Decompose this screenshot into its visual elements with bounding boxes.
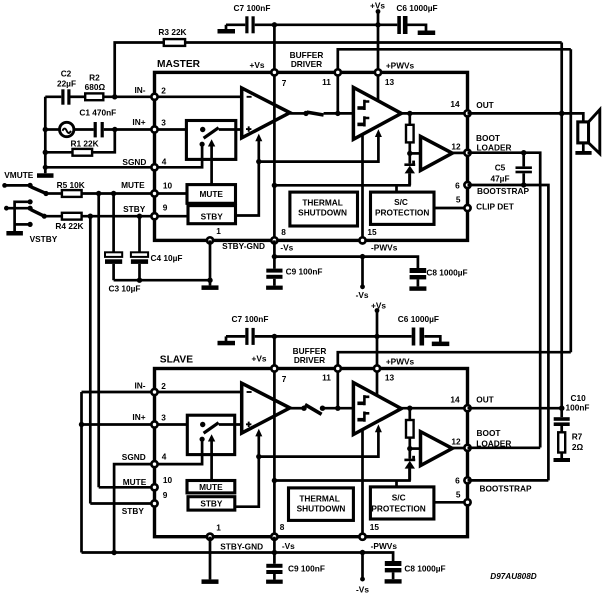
- svg-text:C5: C5: [495, 163, 506, 173]
- resistor R5 10K (master mute): [46, 192, 62, 195]
- svg-text:IN-: IN-: [134, 380, 145, 390]
- wire stby control to input amp (master): [257, 141, 260, 162]
- svg-text:STBY: STBY: [122, 506, 145, 516]
- wire slave IN- internal: [155, 391, 242, 394]
- wire mute control arrow (master): [210, 146, 213, 185]
- pin 3 (master): [151, 126, 157, 132]
- svg-text:4: 4: [162, 452, 167, 462]
- svg-text:DRIVER: DRIVER: [294, 355, 325, 365]
- svg-text:+Vs: +Vs: [371, 301, 386, 311]
- op-amp input stage (master): [242, 88, 290, 138]
- wire master pin 11 to top link: [338, 49, 571, 72]
- wire BOOT LOADER row (master pin 12): [468, 153, 541, 448]
- wire slave IN- row and tie column: [82, 392, 155, 553]
- svg-text:5: 5: [456, 489, 461, 499]
- diode internal (slave boot): [408, 449, 411, 459]
- svg-text:SHUTDOWN: SHUTDOWN: [297, 503, 346, 513]
- wire -Vs rail (master bottom): [274, 257, 418, 268]
- svg-text:STBY: STBY: [200, 499, 223, 509]
- pin 9 (master): [151, 213, 157, 219]
- svg-text:THERMAL: THERMAL: [299, 494, 340, 504]
- svg-text:2Ω: 2Ω: [572, 442, 584, 452]
- transistor Q upper (master power stage): [364, 100, 369, 110]
- resistor internal (master boot): [408, 113, 411, 124]
- pin 1 (master): [207, 237, 213, 243]
- capacitor C8 1000uF (slave): [385, 561, 402, 566]
- svg-text:C7 100nF: C7 100nF: [234, 3, 271, 13]
- svg-text:47µF: 47µF: [490, 174, 509, 184]
- svg-text:IN-: IN-: [134, 85, 145, 95]
- capacitor C6 (slave): [412, 328, 416, 346]
- resistor R7 2ohm (zobel): [558, 432, 565, 452]
- node IN+ junction (master): [112, 127, 117, 132]
- svg-text:13: 13: [385, 77, 395, 87]
- wire OUT external (slave): [468, 407, 562, 410]
- pin 12 (master): [464, 150, 470, 156]
- pin 4 (slave): [151, 461, 157, 467]
- svg-text:PROTECTION: PROTECTION: [371, 503, 425, 513]
- op-amp power stage (master): [353, 87, 401, 139]
- wire C3/C4 ground bus: [114, 279, 210, 282]
- wire mute contact to SGND (master): [200, 142, 205, 147]
- switch box (slave input mute switch): [187, 415, 234, 454]
- transistor Q lower (master power stage): [364, 116, 369, 126]
- wire slave MUTE row: [99, 486, 155, 489]
- capacitor C4 10uF: [138, 216, 141, 252]
- wire OUT external (master): [468, 113, 584, 121]
- node +Vs terminal (master): [376, 9, 381, 14]
- svg-text:13: 13: [385, 373, 395, 383]
- wire buffer-driver bus (master pin11 to slave pin11): [569, 49, 572, 352]
- capacitor C10 100nF (zobel): [560, 408, 563, 417]
- capacitor C3 10uF: [112, 194, 115, 253]
- wire SGND row (master): [45, 166, 154, 169]
- wire +Vs column to pin 13 (master): [377, 12, 380, 73]
- pin 8 (slave): [271, 534, 277, 540]
- wire +Vs top rail (slave): [226, 335, 245, 338]
- block STBY (master): [188, 206, 236, 224]
- wire rail to pin 7 (slave): [273, 336, 276, 368]
- wire master IN+ internal: [155, 128, 203, 131]
- pin 3 (slave): [151, 421, 157, 427]
- svg-text:-Vs: -Vs: [356, 290, 369, 300]
- wire internal +Vs branch to diode and S/C (master): [274, 173, 409, 185]
- svg-text:SLAVE: SLAVE: [160, 354, 193, 365]
- svg-text:8: 8: [281, 227, 286, 237]
- wire boot buffer input (slave): [410, 447, 421, 450]
- op-amp boot loader buffer (slave): [421, 432, 453, 466]
- svg-text:LOADER: LOADER: [476, 142, 511, 152]
- svg-text:D97AU808D: D97AU808D: [490, 572, 537, 581]
- wire pin 1 to ground (slave): [209, 537, 212, 580]
- svg-text:IN+: IN+: [132, 117, 145, 127]
- svg-text:15: 15: [370, 522, 380, 532]
- transistor Q lower (slave power stage): [364, 412, 369, 422]
- svg-text:R4 22K: R4 22K: [55, 221, 83, 231]
- capacitor C5 47uF: [522, 153, 525, 167]
- ground (left of C7, master top): [225, 25, 228, 30]
- switch buffer-driver (master, closed): [290, 112, 305, 115]
- wire stby control to input amp (slave): [257, 436, 260, 457]
- op-amp power stage (slave): [353, 383, 401, 435]
- svg-text:6: 6: [455, 180, 460, 190]
- block STBY (slave): [188, 497, 235, 510]
- node IN- feedback junction (master): [112, 94, 117, 99]
- svg-text:C9 100nF: C9 100nF: [286, 267, 323, 277]
- svg-text:-PWVs: -PWVs: [371, 242, 398, 252]
- svg-text:8: 8: [280, 522, 285, 532]
- svg-text:2: 2: [161, 381, 166, 391]
- diode internal (master boot): [408, 153, 411, 163]
- svg-text:C1 470nF: C1 470nF: [79, 108, 116, 118]
- svg-text:12: 12: [451, 436, 461, 446]
- svg-text:14: 14: [450, 394, 460, 404]
- wire stby bus (master to slave): [89, 216, 92, 503]
- capacitor C9 100nF (master): [266, 269, 282, 273]
- svg-text:MUTE: MUTE: [199, 482, 223, 492]
- wire stby control column (master): [236, 162, 259, 216]
- capacitor C7 (master): [245, 16, 248, 33]
- wire stby control column (slave): [235, 457, 259, 507]
- ground (VMUTE/VSTBY switches): [6, 231, 23, 236]
- wire mute bus (master to slave): [97, 194, 100, 488]
- svg-text:-Vs: -Vs: [280, 243, 293, 253]
- wire internal +Vs branch to diode and S/C (slave): [274, 469, 409, 481]
- svg-text:6: 6: [455, 475, 460, 485]
- pin 13 (master): [375, 69, 381, 75]
- node stby-bus junction (master stby row): [88, 214, 93, 219]
- resistor internal (slave boot): [408, 408, 411, 420]
- pin 10 (master): [151, 190, 157, 196]
- capacitor C7 (slave): [245, 328, 248, 345]
- wire OUT internal (slave): [401, 407, 467, 410]
- switch buffer-driver (slave, open): [290, 407, 303, 410]
- svg-text:9: 9: [163, 490, 168, 500]
- block THERMAL SHUTDOWN (slave): [289, 488, 354, 521]
- svg-text:R7: R7: [572, 432, 583, 442]
- wire S/C to pin 5 (master): [434, 207, 468, 210]
- svg-text:4: 4: [162, 157, 167, 167]
- wire stby control to power amp (master): [259, 137, 379, 162]
- svg-text:CLIP DET: CLIP DET: [476, 202, 514, 212]
- wire OUT bus (master OUT down to slave OUT): [560, 43, 563, 409]
- svg-text:C4 10µF: C4 10µF: [151, 253, 183, 263]
- node C4 junction (master stby row): [137, 214, 142, 219]
- svg-text:OUT: OUT: [476, 395, 494, 405]
- svg-text:MASTER: MASTER: [157, 59, 201, 70]
- wire OUT internal (master): [401, 112, 467, 115]
- svg-text:100nF: 100nF: [566, 402, 590, 412]
- pin 2 (master): [151, 94, 157, 100]
- svg-text:SGND: SGND: [122, 157, 146, 167]
- wire pin7/pin8 internal rail (master): [273, 72, 276, 240]
- pin 1 (slave): [207, 534, 213, 540]
- svg-text:R1 22K: R1 22K: [71, 139, 99, 149]
- switch VSTBY: [4, 206, 9, 211]
- resistor R3 22K (feedback, master): [115, 43, 164, 97]
- svg-text:S/C: S/C: [394, 197, 408, 207]
- wire slave pin 9 row: [90, 502, 154, 505]
- ground (right of C6, slave): [432, 342, 450, 347]
- svg-text:SGND: SGND: [122, 452, 146, 462]
- svg-text:7: 7: [282, 374, 287, 384]
- svg-text:SHUTDOWN: SHUTDOWN: [298, 208, 347, 218]
- pin 12 (slave): [464, 445, 470, 451]
- svg-text:5: 5: [456, 194, 461, 204]
- pin 14 (slave): [464, 405, 470, 411]
- wire +Vs top rail (master): [226, 23, 245, 26]
- svg-text:R3 22K: R3 22K: [158, 27, 186, 37]
- capacitor C2 22uF (master input): [45, 95, 61, 98]
- wire slave IN+ row: [82, 423, 155, 426]
- wire slave SGND row: [114, 464, 154, 552]
- svg-text:+Vs: +Vs: [370, 1, 385, 11]
- block MUTE (slave): [187, 481, 235, 493]
- node +Vs terminal (slave): [375, 308, 380, 313]
- svg-text:BOOTSTRAP: BOOTSTRAP: [479, 484, 532, 494]
- wire S/C to pin 5 (slave): [434, 501, 468, 504]
- node mute-bus junction (master mute row): [96, 191, 101, 196]
- svg-text:2: 2: [161, 86, 166, 96]
- svg-text:STBY-GND: STBY-GND: [220, 541, 263, 551]
- pin 11 (slave): [335, 365, 341, 371]
- node C3 junction (master mute row): [111, 191, 116, 196]
- ground (left of C7, slave): [225, 336, 228, 341]
- wire pin 15 column (master): [361, 135, 364, 241]
- IC U2 SLAVE box: [155, 369, 468, 537]
- wire mute control arrow (slave): [210, 441, 213, 481]
- svg-text:14: 14: [450, 99, 460, 109]
- pin 7 (slave): [271, 365, 277, 371]
- svg-text:IN+: IN+: [132, 412, 145, 422]
- pin 5 (master): [464, 205, 470, 211]
- capacitor C8 1000uF (master): [410, 268, 427, 273]
- svg-text:+PWVs: +PWVs: [386, 60, 415, 70]
- wire stby control to power amp (slave): [259, 432, 379, 457]
- svg-text:+Vs: +Vs: [250, 60, 265, 70]
- svg-text:VMUTE: VMUTE: [4, 170, 34, 180]
- node -Vs terminal (slave): [361, 553, 364, 578]
- switch VMUTE: [2, 183, 7, 188]
- block S/C PROTECTION (master): [371, 192, 435, 224]
- wire pin 11 column (master): [336, 72, 339, 113]
- ground (right of C6, master top): [418, 31, 436, 36]
- wire BOOTSTRAP row (master pin 6): [468, 185, 549, 480]
- node -Vs terminal (master): [361, 257, 364, 285]
- wire pin 11 column (slave): [336, 369, 339, 409]
- wire VMUTE/VSTBY ground contacts: [15, 202, 31, 231]
- pin 11 (master): [335, 69, 341, 75]
- pin 7 (master): [271, 69, 277, 75]
- wire pin7/pin8 internal rail (slave): [273, 369, 276, 537]
- wire pin 8 to C9 (master): [273, 240, 276, 268]
- switch arm (master input): [200, 127, 205, 132]
- svg-text:BOOT: BOOT: [476, 133, 500, 143]
- pin 14 (master): [464, 110, 470, 116]
- wire +Vs column to pin 13 (slave): [376, 311, 379, 369]
- block THERMAL SHUTDOWN (master): [290, 192, 358, 226]
- svg-text:9: 9: [163, 203, 168, 213]
- svg-text:VSTBY: VSTBY: [30, 234, 58, 244]
- svg-text:MUTE: MUTE: [199, 189, 223, 199]
- wire pin 13 into power amp (master): [377, 72, 380, 99]
- svg-text:3: 3: [161, 118, 166, 128]
- pin 6 (slave): [464, 477, 470, 483]
- wire pin 15 column (slave): [361, 430, 364, 537]
- wire pin 1 to ground (master): [209, 240, 212, 285]
- svg-text:BOOT: BOOT: [477, 428, 501, 438]
- svg-text:+Vs: +Vs: [252, 353, 267, 363]
- svg-text:STBY-GND: STBY-GND: [222, 241, 265, 251]
- svg-text:10: 10: [163, 475, 173, 485]
- svg-text:22µF: 22µF: [57, 79, 76, 89]
- svg-text:R5 10K: R5 10K: [57, 180, 85, 190]
- wire master IN- internal: [155, 95, 242, 98]
- svg-text:MUTE: MUTE: [121, 180, 145, 190]
- op-amp boot loader buffer (master): [421, 136, 453, 170]
- svg-text:OUT: OUT: [476, 100, 494, 110]
- capacitor C6 (master): [397, 16, 401, 34]
- op-amp input stage (slave): [242, 383, 290, 433]
- svg-text:DRIVER: DRIVER: [291, 59, 322, 69]
- svg-text:BOOTSTRAP: BOOTSTRAP: [477, 186, 530, 196]
- wire mute contact to SGND (slave): [200, 437, 205, 442]
- transistor Q upper (slave power stage): [364, 395, 369, 405]
- svg-text:LOADER: LOADER: [476, 439, 511, 449]
- IC U1 MASTER box: [155, 72, 468, 240]
- wire pin 8 to C9 (slave): [273, 537, 276, 564]
- pin 9 (slave): [151, 500, 157, 506]
- wire +Vs rail to pin 7 (master): [273, 25, 276, 73]
- svg-text:-Vs: -Vs: [282, 541, 295, 551]
- svg-text:C8 1000µF: C8 1000µF: [404, 564, 445, 574]
- svg-text:+PWVs: +PWVs: [386, 357, 415, 367]
- wire pin 13 into power amp (slave): [376, 369, 379, 396]
- pin 13 (slave): [374, 365, 380, 371]
- svg-text:C9 100nF: C9 100nF: [288, 564, 325, 574]
- wire BOOTSTRAP row (slave pin 6): [468, 479, 549, 482]
- pin 5 (slave): [464, 499, 470, 505]
- wire boot buffer input (master): [410, 152, 421, 155]
- wire -Vs rail (slave bottom): [82, 553, 394, 562]
- wire BOOT LOADER row (slave pin 12): [468, 446, 541, 449]
- pin 4 (master): [151, 164, 157, 170]
- svg-text:STBY: STBY: [201, 211, 224, 221]
- resistor R1 22K (master input): [45, 151, 72, 154]
- pin 15 (master): [359, 237, 365, 243]
- svg-text:STBY: STBY: [123, 204, 146, 214]
- svg-text:THERMAL: THERMAL: [302, 197, 343, 207]
- svg-text:C7 100nF: C7 100nF: [232, 314, 269, 324]
- svg-text:R2: R2: [89, 73, 100, 83]
- svg-text:10: 10: [163, 180, 173, 190]
- switch box (master input mute switch): [186, 121, 235, 160]
- pin 15 (slave): [359, 534, 365, 540]
- svg-text:S/C: S/C: [392, 493, 406, 503]
- svg-text:-Vs: -Vs: [356, 584, 369, 594]
- svg-text:11: 11: [322, 77, 331, 87]
- speaker: [578, 122, 589, 143]
- svg-text:7: 7: [282, 78, 287, 88]
- svg-text:C6 1000µF: C6 1000µF: [396, 3, 437, 13]
- svg-text:12: 12: [451, 141, 461, 151]
- wire slave IN+ internal: [155, 423, 203, 426]
- wire slave pin 11 top link: [338, 352, 571, 368]
- svg-text:680Ω: 680Ω: [85, 82, 106, 92]
- svg-text:C3 10µF: C3 10µF: [109, 284, 141, 294]
- switch arm (slave input): [200, 422, 205, 427]
- svg-text:PROTECTION: PROTECTION: [375, 208, 429, 218]
- svg-text:C2: C2: [61, 69, 72, 79]
- svg-text:11: 11: [322, 373, 331, 383]
- resistor R4 22K (master stby): [44, 215, 62, 218]
- wire input ground column (master): [44, 97, 47, 174]
- capacitor C9 100nF (slave): [266, 564, 282, 568]
- block MUTE (master): [187, 185, 236, 204]
- pin 8 (master): [271, 237, 277, 243]
- resistor R2 680ohm (master input): [71, 95, 86, 98]
- svg-text:15: 15: [367, 227, 377, 237]
- svg-text:1: 1: [216, 522, 221, 532]
- ground (input network, master): [37, 173, 54, 178]
- svg-text:1: 1: [216, 226, 221, 236]
- svg-text:3: 3: [161, 413, 166, 423]
- signal source (master): [45, 128, 59, 131]
- svg-text:C8 1000µF: C8 1000µF: [426, 267, 467, 277]
- pin 2 (slave): [151, 389, 157, 395]
- svg-text:MUTE: MUTE: [123, 477, 147, 487]
- capacitor C1 470nF (master input): [74, 128, 94, 131]
- block S/C PROTECTION (slave): [370, 487, 434, 519]
- svg-text:-PWVs: -PWVs: [371, 541, 398, 551]
- svg-text:C6 1000µF: C6 1000µF: [398, 314, 439, 324]
- pin 10 (slave): [151, 484, 157, 490]
- pin 6 (master): [464, 182, 470, 188]
